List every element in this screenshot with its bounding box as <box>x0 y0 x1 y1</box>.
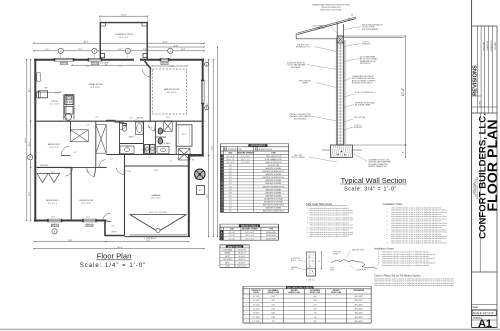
master west wall <box>149 69 151 122</box>
svg-text:1X4 P.T. FURR: 1X4 P.T. FURR <box>356 270 367 272</box>
svg-text:SIZE: SIZE <box>230 229 234 231</box>
interior wall: mid horizontal <box>37 120 151 122</box>
svg-text:5'-0": 5'-0" <box>144 151 148 153</box>
svg-text:A1: A1 <box>478 318 492 330</box>
svg-text:TERMITE TREATED FILL: TERMITE TREATED FILL <box>368 165 388 168</box>
svg-text:2325: 2325 <box>272 304 276 306</box>
bay window V shapes bedroom3 <box>37 174 48 183</box>
svg-text:8F16-1B/1T: 8F16-1B/1T <box>355 300 363 302</box>
svg-text:SIDING: SIDING <box>333 254 339 256</box>
svg-text:SOFFIT: SOFFIT <box>302 83 308 85</box>
svg-text:COVERED PORCH: COVERED PORCH <box>115 34 133 36</box>
exterior wall: front (top) <box>34 59 204 61</box>
svg-text:ENTRY: ENTRY <box>111 232 116 234</box>
master bath fixtures <box>158 128 163 134</box>
svg-text:4'-1": 4'-1" <box>45 49 49 51</box>
hall closet wall <box>95 121 97 167</box>
svg-text:BLOCK: BLOCK <box>291 260 296 262</box>
svg-text:19'-8": 19'-8" <box>121 15 126 17</box>
svg-text:GARAGE: GARAGE <box>152 194 162 197</box>
left dims <box>26 60 28 221</box>
svg-text:59'-0": 59'-0" <box>211 145 213 150</box>
svg-text:2-2X12 HDR: 2-2X12 HDR <box>100 63 109 65</box>
svg-text:21'-4": 21'-4" <box>146 240 151 242</box>
svg-text:2'-6" (34"): 2'-6" (34") <box>253 296 260 298</box>
svg-text:OVER 19/32" CDX PLYWD.: OVER 19/32" CDX PLYWD. <box>320 10 343 12</box>
svg-text:11'-0" x 11'-4": 11'-0" x 11'-4" <box>48 203 58 205</box>
svg-text:20'-6": 20'-6" <box>29 87 31 92</box>
furring and gyp line <box>344 40 346 144</box>
svg-text:11'-8": 11'-8" <box>181 49 186 51</box>
svg-text:Installation Notes: Installation Notes <box>374 246 395 250</box>
svg-text:WITH ALUM.: WITH ALUM. <box>291 66 301 69</box>
svg-text:16'-0" x 7'-0" O.H. DOOR: 16'-0" x 7'-0" O.H. DOOR <box>149 212 168 214</box>
svg-text:2'-6": 2'-6" <box>229 195 233 197</box>
svg-text:1279: 1279 <box>313 304 317 306</box>
svg-text:5: 5 <box>222 168 223 170</box>
svg-text:17'-4": 17'-4" <box>170 66 174 68</box>
svg-text:946: 946 <box>314 309 317 311</box>
svg-text:Typical Wall Section: Typical Wall Section <box>341 176 407 185</box>
svg-text:536: 536 <box>314 317 317 319</box>
svg-text:2'-8": 2'-8" <box>229 165 233 167</box>
hall bath walls <box>119 121 121 154</box>
svg-text:M. BATH: M. BATH <box>164 142 171 145</box>
svg-text:6'-2" x 6'-10": 6'-2" x 6'-10" <box>241 162 250 164</box>
svg-text:2'-4": 2'-4" <box>229 205 233 207</box>
svg-text:STUCCO FINISH: STUCCO FINISH <box>291 157 305 159</box>
top grid bubbles <box>58 48 63 53</box>
svg-text:11'-0": 11'-0" <box>51 172 55 174</box>
svg-text:SINGLE HUNG: SINGLE HUNG <box>266 232 277 234</box>
svg-text:2'-0": 2'-0" <box>229 208 233 210</box>
svg-text:60'-4": 60'-4" <box>117 247 122 249</box>
svg-text:8F16-1B/1T: 8F16-1B/1T <box>355 304 363 306</box>
eave / fascia <box>295 33 297 39</box>
svg-text:B: B <box>204 121 205 123</box>
svg-text:1485: 1485 <box>272 313 276 315</box>
svg-text:2'-4": 2'-4" <box>229 177 233 179</box>
svg-text:19'-8" x 6'-0": 19'-8" x 6'-0" <box>119 37 129 39</box>
svg-text:23'-8": 23'-8" <box>68 240 73 242</box>
svg-text:11'-4": 11'-4" <box>55 93 59 95</box>
master front window <box>160 58 169 61</box>
svg-text:16'-2" x 7'-2": 16'-2" x 7'-2" <box>241 159 250 161</box>
svg-text:BATH 2: BATH 2 <box>129 136 135 139</box>
gable wall above beam <box>336 23 338 37</box>
svg-text:1096: 1096 <box>272 317 276 319</box>
svg-text:3050 SH: 3050 SH <box>87 225 93 227</box>
garage slab bottom wall with door opening <box>125 236 191 238</box>
top dims porch <box>100 15 148 17</box>
svg-text:4" TILE SILL: 4" TILE SILL <box>306 280 315 282</box>
revisions table <box>477 26 479 113</box>
sill detail: profile squiggle <box>331 260 377 270</box>
svg-text:3050 SH: 3050 SH <box>52 225 58 227</box>
bottom dims <box>34 241 106 243</box>
svg-text:16'-0" x 7'-0": 16'-0" x 7'-0" <box>226 159 235 161</box>
exterior wall: right <box>202 59 204 157</box>
svg-text:11'-8" x 13'-0": 11'-8" x 13'-0" <box>81 203 91 205</box>
svg-text:9: 9 <box>222 180 223 182</box>
svg-text:20'-0" x 22'-0": 20'-0" x 22'-0" <box>151 198 161 200</box>
svg-text:REF: REF <box>45 88 48 90</box>
svg-text:EXTERIOR DOOR: EXTERIOR DOOR <box>228 149 243 151</box>
step wall garage to house <box>189 155 204 157</box>
svg-text:SGD 8068: SGD 8068 <box>136 118 143 120</box>
svg-text:9'-4" (118"): 9'-4" (118") <box>252 321 260 323</box>
hall bath vanity <box>120 146 134 154</box>
mid-zone bottom wall <box>106 154 203 156</box>
svg-text:4'-6" (58"): 4'-6" (58") <box>253 304 260 306</box>
svg-text:1850: 1850 <box>313 300 317 302</box>
range <box>65 96 73 105</box>
svg-text:8F16-1B/1T: 8F16-1B/1T <box>355 313 363 315</box>
ceiling line <box>344 37 404 39</box>
exterior wall: left <box>34 59 36 222</box>
svg-text:2'-6": 2'-6" <box>229 198 233 200</box>
svg-text:48'-4": 48'-4" <box>83 41 88 43</box>
svg-text:18: 18 <box>221 208 223 210</box>
svg-text:LINTEL: LINTEL <box>253 292 258 294</box>
svg-text:3050 SH: 3050 SH <box>61 63 67 65</box>
svg-text:TRUSSES 24" O.C.: TRUSSES 24" O.C. <box>296 47 311 49</box>
svg-text:6'-6" (80"): 6'-6" (80") <box>253 313 260 315</box>
svg-text:11'-8": 11'-8" <box>86 172 90 174</box>
svg-text:21'-4": 21'-4" <box>86 66 90 68</box>
svg-text:13: 13 <box>221 192 223 194</box>
svg-text:4" STEP: 4" STEP <box>125 171 131 173</box>
svg-text:REVISIONS: REVISIONS <box>473 65 479 96</box>
svg-text:TAMPA FL 33619 P 555-0100: TAMPA FL 33619 P 555-0100 <box>476 177 479 199</box>
svg-text:20'-0": 20'-0" <box>154 170 158 172</box>
svg-text:COMMENT 07-B: COMMENT 07-B <box>491 40 493 51</box>
svg-text:10'-8": 10'-8" <box>51 217 55 219</box>
svg-text:2'-0": 2'-0" <box>229 183 233 185</box>
svg-text:4PF GYP. DIA.: 4PF GYP. DIA. <box>354 116 366 119</box>
svg-text:4": 4" <box>403 151 405 153</box>
svg-text:860: 860 <box>314 296 317 298</box>
garage top wall <box>125 165 189 167</box>
bedroom3 top wall <box>37 166 73 168</box>
left wall cabinets <box>37 73 40 81</box>
right dimension 4in <box>405 145 407 158</box>
water heater / AC <box>195 169 206 180</box>
svg-text:15'-4": 15'-4" <box>29 141 31 146</box>
wall: cmu block with hatch <box>337 36 343 145</box>
svg-text:2'-6": 2'-6" <box>229 171 233 173</box>
svg-text:744: 744 <box>314 313 317 315</box>
svg-text:Safe Load Table Notes: Safe Load Table Notes <box>306 202 333 206</box>
svg-text:MASONRY OPENING: MASONRY OPENING <box>237 152 254 155</box>
tie beam <box>337 36 343 43</box>
svg-text:BEDROOM 3: BEDROOM 3 <box>46 200 59 202</box>
svg-text:2'-6": 2'-6" <box>229 174 233 176</box>
svg-text:10'-2": 10'-2" <box>401 87 405 96</box>
svg-text:LIVING ROOM: LIVING ROOM <box>79 200 93 202</box>
foyer diagonal wall <box>145 61 151 69</box>
svg-text:5'-4" (68"): 5'-4" (68") <box>253 309 260 311</box>
svg-text:63" x 63": 63" x 63" <box>229 232 236 234</box>
svg-text:ENTRY: ENTRY <box>225 256 230 258</box>
svg-text:11: 11 <box>221 186 223 188</box>
svg-text:2'-4": 2'-4" <box>229 202 233 204</box>
svg-text:6: 6 <box>222 171 223 173</box>
right top dim <box>148 46 205 48</box>
svg-text:1967 SQ. FT.: 1967 SQ. FT. <box>237 249 246 251</box>
svg-text:7: 7 <box>222 174 223 176</box>
svg-text:STEEL FRONT DOOR: STEEL FRONT DOOR <box>266 156 282 158</box>
svg-text:440 SQ. FT.: 440 SQ. FT. <box>238 253 247 255</box>
svg-text:3'-6" (46"): 3'-6" (46") <box>253 300 260 302</box>
window tag boxes <box>60 62 67 65</box>
svg-text:8F16-1B/1T: 8F16-1B/1T <box>355 317 363 319</box>
sink circle <box>65 113 72 120</box>
door schedule table <box>220 144 288 147</box>
svg-text:B: B <box>221 235 222 237</box>
svg-text:LENGTH OF: LENGTH OF <box>252 290 261 292</box>
svg-text:9'-4": 9'-4" <box>149 157 152 159</box>
svg-text:7'-0": 7'-0" <box>110 159 114 161</box>
kitchen island <box>39 91 48 98</box>
svg-text:8F16-1B/1T: 8F16-1B/1T <box>355 309 363 311</box>
master shower xbox <box>164 121 173 132</box>
sliding door rear great room <box>106 120 124 122</box>
svg-text:15: 15 <box>221 198 223 200</box>
covered porch walls <box>99 23 101 59</box>
svg-text:FURR@16": FURR@16" <box>362 44 371 46</box>
top dim overall <box>34 42 204 44</box>
svg-text:IN GROUT FILLED CELLS: IN GROUT FILLED CELLS <box>352 83 373 85</box>
entry step walls <box>104 221 106 237</box>
svg-text:STUCCO ON: STUCCO ON <box>291 258 300 260</box>
svg-text:975: 975 <box>272 321 275 323</box>
kitchen counter <box>63 95 65 120</box>
top dim segments <box>34 50 204 52</box>
svg-text:DIMENSIONAL SHINGLE ROOFING SY: DIMENSIONAL SHINGLE ROOFING SYSTEM <box>312 4 350 7</box>
sill detail: wall cut <box>307 252 316 276</box>
svg-text:1463: 1463 <box>272 296 276 298</box>
svg-text:LIN: LIN <box>179 151 181 153</box>
svg-text:WITH GROUT: WITH GROUT <box>360 63 371 65</box>
area schedule table <box>220 245 249 248</box>
svg-text:12'-8": 12'-8" <box>78 49 83 51</box>
extra leader lines <box>104 61 110 64</box>
svg-text:8F16-1B/1T: 8F16-1B/1T <box>355 296 363 298</box>
roof slope line <box>298 19 357 35</box>
svg-text:17'-8": 17'-8" <box>29 191 31 196</box>
svg-text:(R30 LIVING AREAS): (R30 LIVING AREAS) <box>362 28 379 31</box>
svg-text:3'-8": 3'-8" <box>143 49 147 51</box>
svg-text:Date:: Date: <box>473 305 479 309</box>
svg-text:14: 14 <box>221 195 223 197</box>
svg-text:56 SQ. FT.: 56 SQ. FT. <box>238 256 246 258</box>
scanner edge strip <box>0 329 500 331</box>
svg-text:2'-0": 2'-0" <box>229 186 233 188</box>
svg-text:Cast In Place Sill on Tie: Cast In Place Sill on Tie Beam Option <box>374 273 421 277</box>
exterior wall: bottom (bedrooms) <box>34 220 106 222</box>
svg-text:Scale: 3/4" = 1'-0": Scale: 3/4" = 1'-0" <box>344 186 397 192</box>
svg-text:1: 1 <box>222 156 223 158</box>
svg-text:8'-4" (102"): 8'-4" (102") <box>252 317 260 319</box>
svg-text:5'-0": 5'-0" <box>170 161 173 163</box>
garage overhead door symbol <box>130 214 187 216</box>
svg-text:BEDROOM 2: BEDROOM 2 <box>48 144 61 146</box>
interior dim small lines <box>72 64 106 66</box>
garage right wall <box>188 155 190 237</box>
svg-text:96 SQ. FT.: 96 SQ. FT. <box>238 262 246 264</box>
svg-text:3'-0" x 6'-8": 3'-0" x 6'-8" <box>227 156 235 158</box>
svg-text:MASTER SUITE: MASTER SUITE <box>164 88 180 91</box>
svg-text:3: 3 <box>222 162 223 164</box>
svg-text:2'-8": 2'-8" <box>229 189 233 191</box>
svg-text:#: # <box>222 153 223 155</box>
date / scale / job block <box>472 304 497 306</box>
porch columns <box>100 54 104 58</box>
svg-text:2'-4": 2'-4" <box>229 180 233 182</box>
svg-text:2'-8": 2'-8" <box>229 168 233 170</box>
svg-text:16: 16 <box>221 202 223 204</box>
svg-text:#: # <box>221 229 222 231</box>
window schedule table <box>220 224 279 227</box>
svg-text:17: 17 <box>221 205 223 207</box>
svg-text:CVRD PORCH: CVRD PORCH <box>222 259 232 261</box>
right dims <box>208 60 210 156</box>
right wall window bubbles <box>205 62 209 66</box>
title block frame <box>471 0 473 328</box>
svg-text:14'-0" x 15'-0": 14'-0" x 15'-0" <box>167 92 177 94</box>
svg-text:2: 2 <box>222 159 223 161</box>
left grid bubble <box>28 155 33 160</box>
svg-text:SCALE 1/4"=1'-0": SCALE 1/4"=1'-0" <box>473 311 494 315</box>
svg-text:HOLLOW CORE: HOLLOW CORE <box>268 165 279 167</box>
laundry appliances <box>144 145 149 154</box>
svg-text:8 X 8 P.T. FURRING 16" o.c.: 8 X 8 P.T. FURRING 16" o.c. <box>355 92 377 94</box>
front door opening <box>134 58 141 61</box>
svg-text:38.5" x 64.5": 38.5" x 64.5" <box>246 235 255 237</box>
svg-text:11'-8": 11'-8" <box>174 45 179 47</box>
svg-text:11'-4": 11'-4" <box>119 66 123 68</box>
svg-text:KITCH: KITCH <box>51 101 58 103</box>
svg-text:3'-4" x 6'-10": 3'-4" x 6'-10" <box>241 156 250 158</box>
stucco line <box>335 38 337 145</box>
svg-text:ALL OPENINGS: ALL OPENINGS <box>294 117 307 120</box>
svg-text:54'-0": 54'-0" <box>25 137 27 142</box>
svg-text:8'-0": 8'-0" <box>118 49 122 51</box>
svg-text:INTERIOR DOOR: INTERIOR DOOR <box>258 149 272 151</box>
svg-text:Floor Plan: Floor Plan <box>97 252 132 261</box>
svg-text:SILL: SILL <box>291 269 294 271</box>
svg-text:HB: HB <box>192 160 194 162</box>
svg-text:CONFORT BUILDERS, LLC.: CONFORT BUILDERS, LLC. <box>478 113 489 239</box>
svg-text:FURR@16": FURR@16" <box>354 127 363 129</box>
svg-text:W.I.C.: W.I.C. <box>182 134 187 136</box>
svg-text:10: 10 <box>221 183 223 185</box>
wic walls <box>176 125 192 146</box>
cast-crete lintel schedule table <box>243 286 371 289</box>
svg-text:AT CENTRAL AREA: AT CENTRAL AREA <box>355 104 371 107</box>
fridge <box>65 107 73 115</box>
svg-text:9'-0": 9'-0" <box>64 105 66 108</box>
svg-text:12: 12 <box>221 189 223 191</box>
svg-text:11'-4" x 11'-0": 11'-4" x 11'-0" <box>49 147 59 149</box>
svg-text:376: 376 <box>314 321 317 323</box>
hall closet xbox <box>96 125 106 154</box>
svg-text:Installation Notes: Installation Notes <box>383 202 404 206</box>
svg-text:GREAT ROOM: GREAT ROOM <box>88 83 102 86</box>
door arcs interior <box>61 146 69 155</box>
svg-text:128 SQ. FT.: 128 SQ. FT. <box>238 259 247 261</box>
svg-text:11'-4": 11'-4" <box>86 217 90 219</box>
linen xbox <box>179 149 191 161</box>
hall bath tub <box>136 122 144 135</box>
bedroom2 closet xbox <box>71 130 89 142</box>
svg-text:TYPE: TYPE <box>269 229 273 231</box>
svg-text:11'-4" x 12'-6": 11'-4" x 12'-6" <box>50 103 60 105</box>
svg-text:3050 SH: 3050 SH <box>92 63 98 65</box>
svg-text:8'-0": 8'-0" <box>129 118 133 120</box>
svg-text:37" x 63": 37" x 63" <box>229 235 236 237</box>
svg-text:64.5" x 64.5": 64.5" x 64.5" <box>246 232 255 234</box>
svg-text:5'-4": 5'-4" <box>86 125 90 127</box>
svg-text:1948: 1948 <box>272 309 276 311</box>
svg-text:3050 SH: 3050 SH <box>162 63 168 65</box>
svg-text:Scale: 1/4" = 1'-0": Scale: 1/4" = 1'-0" <box>80 263 147 269</box>
bedroom2 east closet wall <box>70 121 72 132</box>
master bath walls <box>154 121 156 154</box>
svg-text:6'-0" x 6'-8": 6'-0" x 6'-8" <box>227 162 235 164</box>
svg-text:SINGLE HUNG: SINGLE HUNG <box>266 235 277 237</box>
bedroom3 / living divider <box>70 167 72 220</box>
svg-text:4: 4 <box>222 165 223 167</box>
master tray ceiling dashed <box>0 0 1 1</box>
hall bath toilet <box>122 125 126 131</box>
bottom grid bubbles <box>52 229 57 234</box>
svg-text:27'-0": 27'-0" <box>207 193 209 198</box>
svg-text:BUCK: BUCK <box>330 270 334 272</box>
svg-text:20'-0": 20'-0" <box>162 41 167 43</box>
svg-text:SCHEDULE: SCHEDULE <box>315 28 325 30</box>
svg-text:12'-4": 12'-4" <box>166 117 170 119</box>
footing <box>331 145 353 158</box>
svg-text:2957: 2957 <box>272 300 276 302</box>
svg-text:8: 8 <box>222 177 223 179</box>
living room east wall / garage west <box>124 155 126 236</box>
svg-text:8F16-1B/1T: 8F16-1B/1T <box>355 321 363 323</box>
svg-text:2'-8": 2'-8" <box>74 152 77 154</box>
svg-text:6'-8": 6'-8" <box>96 117 99 119</box>
foyer door arc <box>142 69 150 77</box>
svg-text:2'-8": 2'-8" <box>229 192 233 194</box>
svg-text:16'-8" x 19'-6": 16'-8" x 19'-6" <box>90 87 100 89</box>
front windows <box>54 58 74 61</box>
right dimension 10-2 <box>405 36 407 145</box>
